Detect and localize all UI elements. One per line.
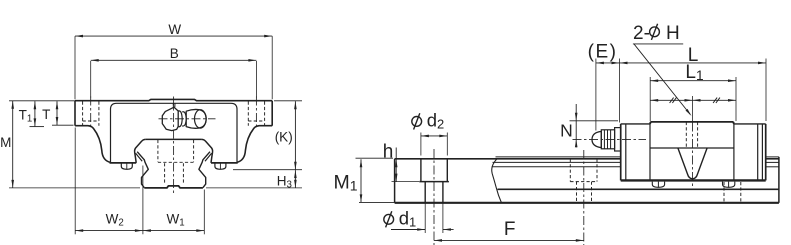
svg-text:B: B — [170, 46, 179, 61]
svg-text:T: T — [42, 107, 50, 122]
svg-text:H: H — [666, 23, 680, 44]
svg-text:F: F — [504, 219, 516, 240]
svg-text:h: h — [383, 142, 394, 163]
svg-text:(E): (E) — [588, 42, 618, 63]
svg-text:W: W — [168, 22, 181, 37]
svg-text:2-: 2- — [633, 23, 650, 44]
svg-text:M: M — [0, 135, 11, 150]
svg-text:(K): (K) — [275, 130, 293, 145]
svg-text:N: N — [560, 121, 573, 141]
